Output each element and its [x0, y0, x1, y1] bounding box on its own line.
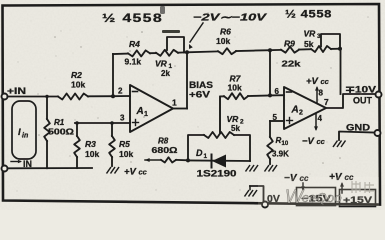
svg-text:10k: 10k [119, 149, 133, 159]
node A1 output feedback [185, 50, 189, 54]
wire pin5 down to R10 [269, 121, 271, 137]
terminal OUT [376, 92, 382, 98]
svg-text:4: 4 [318, 114, 323, 123]
ground at GND terminal [333, 141, 346, 148]
svg-text:cc: cc [317, 137, 326, 146]
wire A1 pin3 rail [75, 122, 130, 124]
node R1 top [45, 95, 48, 98]
svg-text:1S2190: 1S2190 [197, 169, 237, 179]
wire A2 output [326, 94, 376, 108]
op-amp A1 [130, 85, 173, 132]
ground at D1 right [246, 165, 259, 172]
svg-text:cc: cc [321, 77, 330, 86]
svg-text:∓10V: ∓10V [345, 85, 376, 95]
svg-text:R4: R4 [129, 39, 140, 49]
svg-text:3: 3 [120, 114, 125, 123]
svg-text:+V: +V [124, 167, 137, 178]
svg-text:R9: R9 [284, 39, 295, 49]
svg-text:+6V: +6V [189, 90, 210, 100]
wire pin6 node up to R9 [270, 49, 281, 51]
label 0V [267, 193, 280, 205]
svg-text:BIAS: BIAS [189, 80, 213, 90]
svg-text:2: 2 [299, 110, 303, 117]
svg-text:eeQoo: eeQoo [302, 191, 342, 205]
svg-text:10k: 10k [228, 83, 242, 93]
svg-text:R2: R2 [71, 70, 82, 80]
svg-text:VR: VR [227, 114, 240, 124]
svg-text:A: A [291, 105, 299, 116]
label +Vcc left of R8 [0, 0, 1, 1]
wire node to R6 [187, 50, 218, 53]
svg-text:+IN: +IN [7, 86, 26, 96]
A1 plus sign [133, 120, 139, 126]
A1 pin 2 label [118, 87, 123, 96]
A1 pin 1 label [172, 98, 177, 108]
wire VR1 to node [178, 51, 187, 53]
svg-text:VR: VR [304, 29, 317, 39]
wire feedback top left [113, 53, 128, 55]
resistor R4 [125, 39, 151, 67]
svg-text:R8: R8 [158, 137, 169, 146]
svg-text:680Ω: 680Ω [152, 146, 179, 155]
svg-text:1: 1 [172, 98, 177, 108]
resistor R1 [44, 97, 75, 169]
wire R8 to D1 node [176, 159, 188, 161]
VR1 wiper loop [167, 37, 184, 52]
wire VR2 right leg [234, 135, 250, 161]
A2 plus sign [287, 118, 293, 124]
svg-text:−2V∼−10V: −2V∼−10V [193, 13, 268, 24]
wire R4 to VR1 [150, 52, 156, 54]
box +15V [340, 190, 376, 207]
label -IN with arrow [11, 159, 32, 169]
A2 pin 7 label [324, 97, 329, 107]
potentiometer VR3 [304, 29, 332, 53]
smudge mark [162, 30, 180, 33]
resistor R9 [281, 39, 301, 69]
A1 minus sign [133, 91, 138, 93]
wire R7 to pin6 node [248, 95, 270, 98]
speck near 4558 [160, 6, 165, 14]
scan speckle noise [16, 12, 368, 199]
svg-text:2: 2 [240, 119, 244, 126]
svg-text:½ 4558: ½ 4558 [285, 9, 332, 21]
arrow to -15V [301, 183, 305, 191]
resistor R8 [152, 137, 179, 163]
svg-text:R5: R5 [119, 139, 130, 149]
svg-text:10k: 10k [85, 149, 99, 159]
node D1 left [186, 158, 190, 162]
wire GND terminal [339, 132, 375, 141]
svg-text:I: I [18, 127, 21, 138]
A2 pin 5 label [273, 113, 278, 122]
wire R6 to node [236, 49, 270, 52]
svg-text:VR: VR [155, 59, 168, 69]
box -15V [297, 188, 336, 206]
svg-text:½ 4558: ½ 4558 [102, 11, 163, 25]
arrow +Vcc to R8 [145, 158, 161, 162]
potentiometer VR1 [155, 50, 178, 78]
resistor R6 [216, 27, 236, 55]
diode D1 [188, 148, 250, 179]
A1 pin 3 label [120, 114, 125, 123]
wire node to A1 pin2 [113, 95, 130, 97]
wire R7 left corner [220, 96, 224, 133]
svg-text:OUT: OUT [353, 96, 372, 106]
svg-text:500Ω: 500Ω [48, 128, 75, 137]
svg-text:R3: R3 [85, 139, 96, 149]
label GND [346, 123, 370, 133]
potentiometer VR2 [204, 114, 244, 138]
label output voltage [345, 85, 376, 95]
label OUT [353, 96, 372, 106]
wire VR2 left leg [188, 135, 204, 160]
wire VR3 to node [331, 48, 340, 50]
wire A1 output to feedback node [186, 52, 188, 109]
wire A1 output [173, 108, 187, 110]
A2 pin 8 arrow +Vcc [315, 86, 324, 103]
svg-text:10: 10 [282, 141, 289, 147]
svg-text:22k: 22k [282, 59, 301, 69]
wire feedback down to output [340, 49, 342, 94]
svg-text:cc: cc [139, 168, 148, 177]
wire feedback vertical left [112, 54, 114, 96]
ground below R5 [107, 167, 120, 174]
A2 minus sign [287, 91, 292, 93]
label -Vcc bottom [284, 173, 309, 184]
svg-text:R1: R1 [54, 118, 65, 127]
svg-text:5k: 5k [304, 39, 314, 49]
wire +IN to A1 pin2 [8, 96, 59, 98]
wire 0V stub [250, 186, 264, 204]
resistor R5 [109, 123, 133, 166]
op-amp A2 [284, 87, 326, 129]
terminal GND [375, 130, 381, 136]
resistor R2 [58, 70, 88, 100]
svg-text:R6: R6 [220, 27, 231, 37]
label BIAS +6V [189, 80, 213, 100]
svg-text:A: A [136, 106, 144, 117]
svg-text:5k: 5k [231, 124, 240, 133]
resistor R3 [74, 123, 99, 168]
terminal 0V [262, 202, 268, 208]
node A2 pin6 junction [268, 93, 272, 97]
svg-text:2: 2 [118, 87, 123, 96]
node R3 top [75, 121, 79, 125]
wire junction to A2 pin6 [270, 94, 284, 96]
A2 pin 4 arrow -Vcc [314, 114, 323, 132]
wire A2 pin5 [270, 120, 284, 122]
label +Vcc above A2 [306, 76, 330, 87]
svg-text:1: 1 [204, 153, 208, 160]
terminal +IN [2, 86, 27, 100]
svg-text:D: D [196, 148, 203, 158]
terminal -IN [2, 166, 8, 172]
node top mid junction [268, 48, 272, 52]
svg-text:10k: 10k [216, 36, 230, 46]
ground below R10 [265, 165, 278, 172]
svg-text:GND: GND [346, 123, 370, 133]
resistor R10 [267, 136, 289, 164]
IC label U1 half 4558 [102, 11, 163, 25]
watermark WeeQoo [258, 177, 379, 208]
IC label U2 half 4558 [285, 9, 332, 21]
svg-text:2k: 2k [161, 69, 170, 78]
arrow to +Vcc [340, 182, 344, 193]
svg-text:10k: 10k [71, 80, 85, 90]
A2 pin 6 label [275, 87, 280, 96]
svg-text:7: 7 [324, 97, 329, 107]
wire R2 to node [88, 95, 113, 97]
supply range label -2V ~ -10V [193, 13, 268, 24]
current source Iin box [12, 101, 36, 159]
svg-text:8: 8 [319, 89, 324, 98]
node R5 top [110, 121, 114, 125]
svg-text:9.1k: 9.1k [125, 57, 142, 67]
ground at 0V stub [245, 190, 258, 197]
svg-text:in: in [22, 133, 28, 140]
label Iin [18, 127, 28, 140]
node feedback-left junction [111, 94, 115, 98]
resistor R7 [224, 74, 248, 100]
svg-text:6: 6 [275, 87, 280, 96]
svg-text:+V: +V [306, 76, 319, 87]
VR3 wiper loop [321, 34, 340, 49]
wire node down to A2 pin6 [269, 50, 271, 95]
node A2 feedback right [338, 47, 342, 51]
label +Vcc bottom [329, 172, 354, 183]
svg-text:−V: −V [302, 136, 315, 147]
label -Vcc below A2 [302, 136, 326, 147]
label +Vcc near R5 ground [124, 167, 148, 178]
wire -IN rail [8, 167, 93, 169]
pointer arrow to VR1 wiper [189, 23, 203, 49]
wire R9 to VR3 [299, 48, 311, 50]
VR2 wiper [219, 96, 221, 133]
svg-text:3.9K: 3.9K [272, 150, 289, 159]
